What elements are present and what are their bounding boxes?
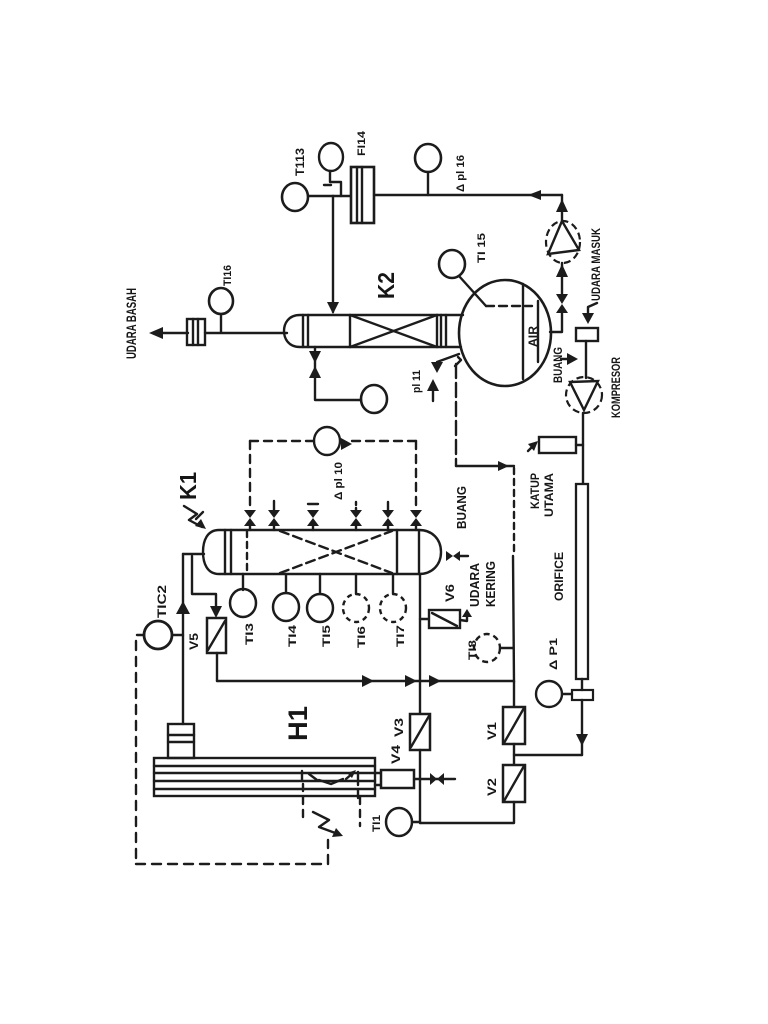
silencer F [187,319,205,345]
K1 left bands [224,530,226,574]
dP10 dashed top right [352,440,416,442]
check valve [556,294,568,304]
K2 drain wire [315,347,361,400]
flow element FI14 [351,167,374,223]
heater lightning [313,812,338,834]
K1 packing X dashed [280,531,392,573]
wire riser corner [561,195,563,222]
svg-text:TIC2: TIC2 [155,585,169,618]
svg-text:BUANG: BUANG [551,347,565,383]
wire K1 nozzle left [183,553,204,555]
udara masuk arrow [588,303,597,319]
svg-text:Δ P1: Δ P1 [548,638,560,670]
K1 dome base [418,530,420,574]
svg-text:UTAMA: UTAMA [542,473,556,517]
blower fan [546,221,580,263]
valve V2 [503,765,525,802]
tick [324,184,331,186]
wire drop to heater [182,554,184,724]
arrow down into V5 [210,606,222,618]
instrument TI7 [392,574,394,594]
wire main into FI14 [333,195,352,197]
arrow right 3 [429,675,441,687]
svg-text:V4: V4 [389,745,403,764]
K1 inner dashed tap [246,531,248,573]
V6 vent arrow [460,613,467,621]
svg-text:V2: V2 [485,778,499,796]
svg-text:UDARA BASAH: UDARA BASAH [123,288,139,359]
arrow outlet left [149,327,163,339]
arrow flow left [528,190,541,200]
katup arrow [528,443,536,451]
svg-text:pl 11: pl 11 [411,370,423,393]
heater dashed tap left [302,784,304,820]
svg-text:T113: T113 [293,148,307,176]
wire TI13 stem [308,195,333,197]
sample valve 6 [410,510,422,526]
check valve udara kering [446,551,460,561]
wire into V1 [513,681,515,707]
arrow up below corner [556,199,568,212]
wire tube to fitting [581,679,583,690]
wire manifold [217,680,419,682]
wire compressor down [582,413,584,484]
TI15 leader [459,276,486,306]
column K1 shell [203,530,441,574]
instrument dP16 [415,144,441,172]
instrument TI4 [285,574,287,593]
wire manifold right [420,680,513,682]
instrument TI15 [439,250,465,278]
compressor [566,377,602,413]
sample valve 5 [382,510,394,526]
instrument TI13 [282,183,308,211]
K2 packing X [349,315,351,347]
buang arrow [561,358,573,360]
arrow into loop [341,438,352,450]
heater element mark [301,771,303,781]
wire V5 down [216,653,218,681]
vent check valve [430,773,444,785]
arrow right 1 [362,675,374,687]
wire fan to check valve [561,263,563,296]
arrow up on drop [176,601,190,614]
heater H1 body [154,758,375,796]
wire filter to compressor [585,341,587,378]
dashed level line [486,305,532,307]
wire V3 down [419,750,421,823]
instrument TI1 [386,808,412,836]
arrow down [576,734,588,746]
sphere chords [522,284,524,379]
sample valve 4 [350,510,362,526]
svg-text:ORIFICE: ORIFICE [552,552,566,601]
valve V6 [420,618,429,620]
dashed control wire left [135,641,137,864]
svg-text:TI6: TI6 [356,626,368,648]
svg-text:V1: V1 [485,722,499,740]
dashed wire down [513,468,515,556]
arrow down into K2 [327,302,339,314]
arrow up [309,366,321,378]
svg-text:V6: V6 [443,584,457,602]
wire down to V1 [513,556,514,682]
wire check valve to sphere [550,313,562,332]
svg-text:UDARA: UDARA [467,562,482,607]
heater dashed tap right [359,797,361,826]
arrow down [309,351,321,363]
instrument TI16 [209,288,233,314]
dP10 dashed loop right [415,441,417,506]
wire FI14 to right [374,194,562,196]
instrument TI8 [474,634,500,662]
wire branch to V5 [192,556,216,614]
sample valve 2 [268,510,280,526]
dP10 dashed top left [250,440,314,442]
K1 lightning [184,506,202,527]
arrow right [498,461,509,471]
svg-text:Δ pl 10: Δ pl 10 [333,462,345,500]
svg-text:K2: K2 [373,272,399,299]
sample valve 1 [244,510,256,526]
pl11 up arrow [432,384,434,401]
valve V5 [207,618,226,653]
wire V4 vent [414,778,455,780]
svg-text:UDARA MASUK: UDARA MASUK [589,228,603,301]
column K2 shell [284,315,463,347]
dash-dot wire from sphere [455,364,457,466]
instrument TI5 [319,574,321,594]
svg-text:V3: V3 [392,718,406,737]
dashed control wire bottom [136,863,328,865]
valve V4 [375,772,381,774]
valve V3 [410,714,430,750]
K1 right band [396,530,398,574]
instrument dP10 [314,427,340,455]
dP10 dashed loop left [249,441,251,508]
inlet filter box [576,328,598,341]
wire V1 to V2 [513,744,515,765]
arrow right 2 [405,675,417,687]
svg-text:AIR: AIR [526,326,540,347]
K2 left bands [302,315,304,347]
svg-text:K1: K1 [175,472,201,500]
svg-text:BUANG: BUANG [454,486,469,529]
svg-text:TI7: TI7 [395,625,407,647]
wire K2 feed drop [332,196,334,312]
wire to V1V2 junction [514,754,582,756]
svg-text:KERING: KERING [483,561,498,607]
wire V2 bottom loop [420,802,514,823]
instrument dP1 [536,681,562,707]
svg-text:TI 15: TI 15 [476,233,488,263]
svg-text:TI16: TI16 [222,265,234,286]
valve KATUP UTAMA [539,437,576,453]
svg-text:TI3: TI3 [244,623,256,645]
svg-text:H1: H1 [283,706,313,741]
svg-text:KOMPRESOR: KOMPRESOR [609,357,623,418]
hook at sphere tap [455,357,461,366]
wire dP16 stem [427,172,429,195]
svg-text:V5: V5 [187,633,201,650]
svg-text:Δ pl 16: Δ pl 16 [455,155,467,192]
dashed control wire up [327,840,329,864]
sample valve 3 [307,510,319,526]
fitting [572,690,593,700]
instrument TIC2 [144,621,172,649]
drain bulb [361,385,387,413]
svg-text:TI1: TI1 [371,815,383,832]
wire silencer to K2 dome [205,332,287,334]
valve V1 [503,707,525,744]
instrument FI14 bulb [319,143,343,171]
svg-text:TI5: TI5 [321,625,333,647]
vessel sphere [459,280,551,386]
svg-text:FI14: FI14 [356,130,368,156]
svg-text:TI4: TI4 [287,624,299,647]
K2 right bands [440,315,442,347]
svg-text:KATUP: KATUP [528,473,542,509]
heater cap [168,724,194,758]
instrument TI6 [355,574,357,594]
svg-text:TI8: TI8 [467,640,479,660]
arrow up below fan [556,264,568,277]
wire fitting down [581,700,583,755]
wire outlet [160,332,188,334]
pl11 leader arrow [437,354,459,370]
wire K1 dome down [419,574,421,714]
orifice tube [576,484,588,679]
instrument TI3 [242,574,244,590]
wire FI14 bulb stem [330,171,341,196]
wire corner [456,465,514,467]
